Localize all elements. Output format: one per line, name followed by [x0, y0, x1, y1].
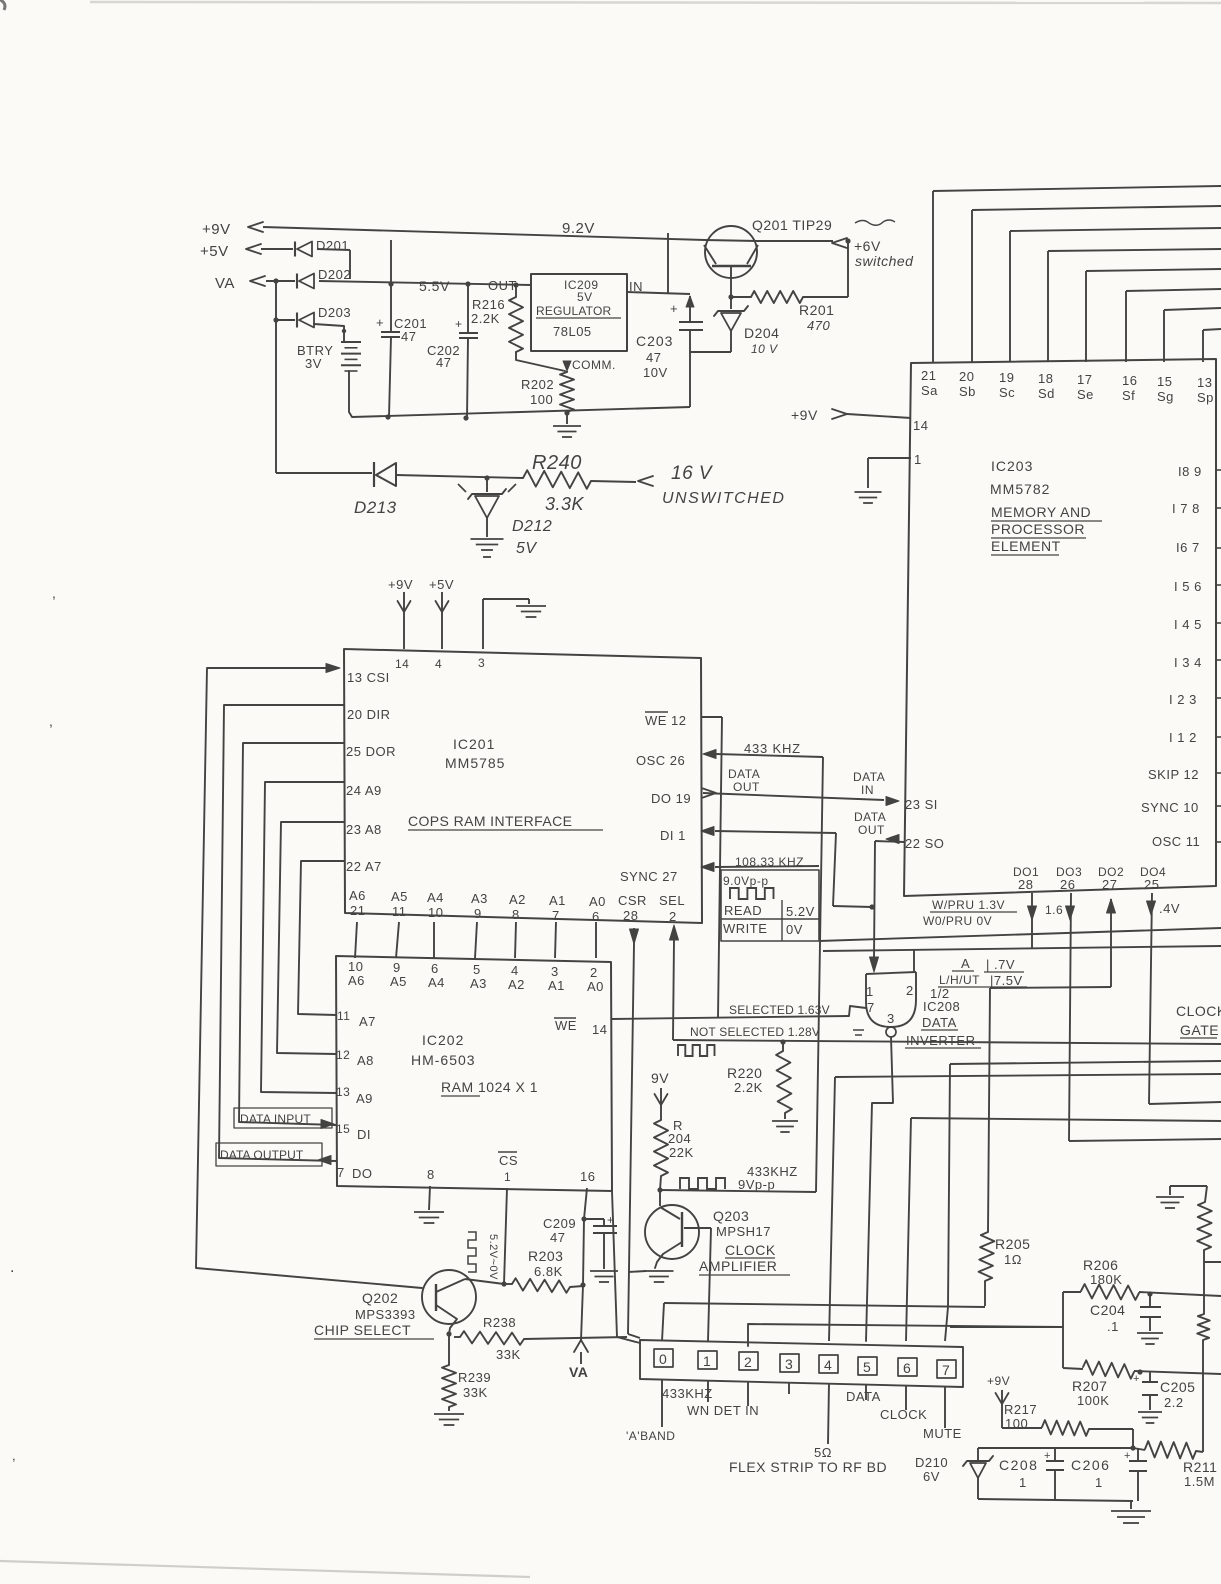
svg-text:CHIP SELECT: CHIP SELECT [314, 1322, 411, 1338]
svg-text:IC203: IC203 [991, 458, 1033, 474]
svg-text:+: + [455, 317, 463, 331]
svg-text:+: + [376, 315, 384, 330]
svg-text:470: 470 [807, 318, 830, 333]
svg-text:A5: A5 [390, 974, 407, 989]
svg-text:DATA: DATA [853, 770, 885, 784]
svg-text:| .7V: | .7V [986, 957, 1015, 972]
svg-text:3: 3 [478, 656, 485, 670]
svg-text:FLEX STRIP TO RF BD: FLEX STRIP TO RF BD [729, 1459, 887, 1475]
svg-text:3: 3 [551, 964, 559, 979]
svg-text:GATE: GATE [1180, 1022, 1219, 1038]
svg-text:+6V: +6V [854, 238, 881, 254]
svg-text:DATA: DATA [846, 1389, 881, 1404]
svg-text:OSC 11: OSC 11 [1152, 834, 1200, 849]
svg-text:C205: C205 [1160, 1379, 1195, 1395]
svg-text:+9V: +9V [791, 407, 818, 423]
svg-text:IC202: IC202 [422, 1032, 464, 1048]
svg-text:1: 1 [914, 452, 922, 467]
svg-text:SELECTED 1.63V: SELECTED 1.63V [729, 1003, 830, 1017]
svg-text:R239: R239 [458, 1370, 491, 1385]
svg-text:2.2K: 2.2K [471, 311, 500, 326]
svg-text:23 A8: 23 A8 [346, 822, 382, 837]
svg-text:20: 20 [959, 369, 974, 384]
svg-text:A5: A5 [391, 889, 408, 904]
svg-text:5V: 5V [516, 540, 537, 557]
svg-text:23 SI: 23 SI [905, 797, 938, 812]
svg-text:.1: .1 [1107, 1319, 1119, 1334]
svg-text:+9V: +9V [202, 221, 231, 238]
svg-text:DATA: DATA [854, 810, 886, 824]
svg-text:OUT: OUT [733, 780, 760, 794]
svg-text:R238: R238 [483, 1315, 516, 1330]
svg-text:+9V: +9V [388, 577, 413, 592]
svg-text:A7: A7 [359, 1014, 376, 1029]
svg-text:REGULATOR: REGULATOR [536, 304, 612, 318]
svg-text:Q203: Q203 [713, 1208, 749, 1224]
svg-text:0: 0 [659, 1351, 667, 1367]
svg-text:Q202: Q202 [362, 1290, 398, 1306]
svg-text:7: 7 [552, 908, 560, 923]
svg-text:1: 1 [1095, 1475, 1103, 1490]
svg-text:5.2V: 5.2V [786, 904, 815, 919]
svg-text:C203: C203 [636, 333, 673, 349]
svg-text:Sp: Sp [1197, 390, 1214, 405]
svg-text:DATA INPUT: DATA INPUT [240, 1112, 311, 1126]
svg-text:RAM 1024 X 1: RAM 1024 X 1 [441, 1079, 538, 1095]
svg-text:33K: 33K [496, 1347, 521, 1362]
svg-text:25 DOR: 25 DOR [346, 744, 396, 759]
svg-text:IC208: IC208 [923, 999, 960, 1014]
svg-text:2: 2 [906, 983, 914, 998]
svg-text:MUTE: MUTE [923, 1426, 962, 1441]
svg-text:2: 2 [669, 909, 677, 924]
svg-text:|7.5V: |7.5V [990, 973, 1023, 988]
svg-text:IN: IN [861, 783, 874, 797]
svg-text:+5V: +5V [200, 243, 229, 260]
svg-text:A3: A3 [470, 976, 487, 991]
svg-text:MM5785: MM5785 [445, 755, 505, 771]
svg-text:Sa: Sa [921, 383, 938, 398]
svg-text:R216: R216 [472, 297, 505, 312]
svg-text:OUT: OUT [858, 823, 885, 837]
svg-text:R240: R240 [532, 452, 582, 474]
svg-text:18: 18 [1038, 371, 1053, 386]
svg-text:7: 7 [337, 1165, 345, 1180]
svg-text:A0: A0 [589, 894, 606, 909]
svg-text:HM-6503: HM-6503 [411, 1052, 476, 1068]
svg-text:DATA: DATA [728, 767, 760, 781]
svg-text:3.3K: 3.3K [545, 494, 585, 514]
svg-text:1: 1 [703, 1353, 711, 1369]
svg-text:MEMORY AND: MEMORY AND [991, 504, 1091, 520]
svg-text:switched: switched [855, 253, 914, 269]
svg-text:D204: D204 [744, 325, 779, 341]
svg-text:Sd: Sd [1038, 386, 1055, 401]
svg-text:DO: DO [352, 1166, 373, 1181]
svg-text:OUT: OUT [488, 278, 517, 293]
svg-text:D213: D213 [354, 498, 397, 517]
svg-text:2: 2 [590, 965, 598, 980]
svg-text:13: 13 [1197, 375, 1212, 390]
svg-text:433 KHZ: 433 KHZ [744, 741, 801, 756]
svg-text:COPS RAM INTERFACE: COPS RAM INTERFACE [408, 813, 572, 829]
svg-text:22 A7: 22 A7 [346, 859, 382, 874]
svg-text:CLOCK: CLOCK [1176, 1003, 1221, 1019]
svg-text:A6: A6 [349, 888, 366, 903]
svg-text:12: 12 [336, 1048, 350, 1062]
svg-text:6V: 6V [923, 1469, 940, 1484]
svg-text:180K: 180K [1090, 1272, 1122, 1287]
svg-text:7: 7 [867, 1000, 875, 1015]
svg-text:2.2: 2.2 [1164, 1395, 1184, 1410]
svg-text:4: 4 [824, 1357, 832, 1373]
svg-text:ELEMENT: ELEMENT [991, 538, 1061, 554]
svg-text:1: 1 [1019, 1475, 1027, 1490]
svg-text:1: 1 [866, 984, 874, 999]
svg-text:6: 6 [431, 961, 439, 976]
svg-text:WE 12: WE 12 [645, 713, 687, 728]
svg-text:IC201: IC201 [453, 736, 495, 752]
svg-text:'A'BAND: 'A'BAND [626, 1429, 675, 1443]
svg-text:47: 47 [646, 350, 661, 365]
svg-text:15: 15 [336, 1122, 350, 1136]
svg-text:28: 28 [623, 908, 638, 923]
svg-text:D210: D210 [915, 1455, 948, 1470]
svg-text:I8 9: I8 9 [1178, 464, 1202, 479]
svg-text:47: 47 [550, 1230, 565, 1245]
svg-text:DATA OUTPUT: DATA OUTPUT [220, 1148, 304, 1162]
svg-text:R205: R205 [995, 1236, 1030, 1252]
svg-text:15: 15 [1157, 374, 1172, 389]
svg-text:9: 9 [393, 960, 401, 975]
svg-text:CS: CS [499, 1153, 518, 1168]
svg-text:A9: A9 [356, 1091, 373, 1106]
svg-text:,: , [52, 585, 56, 601]
svg-text:VA: VA [569, 1364, 588, 1380]
svg-text:10: 10 [428, 905, 443, 920]
svg-text:UNSWITCHED: UNSWITCHED [662, 490, 785, 507]
svg-text:READ: READ [724, 903, 762, 918]
svg-text:204: 204 [668, 1131, 691, 1146]
svg-text:5Ω: 5Ω [814, 1445, 832, 1460]
svg-text:PROCESSOR: PROCESSOR [991, 521, 1085, 537]
svg-text:Sb: Sb [959, 384, 976, 399]
svg-text:2: 2 [744, 1354, 752, 1370]
svg-text:100: 100 [1005, 1416, 1028, 1431]
svg-text:WN DET IN: WN DET IN [687, 1403, 759, 1418]
svg-text:OSC 26: OSC 26 [636, 753, 685, 768]
svg-text:A6: A6 [348, 973, 365, 988]
svg-text:5: 5 [863, 1359, 871, 1375]
svg-text:9Vp-p: 9Vp-p [738, 1177, 775, 1192]
svg-text:D202: D202 [318, 267, 351, 282]
svg-text:L/H/UT: L/H/UT [939, 973, 980, 987]
svg-text:24 A9: 24 A9 [346, 783, 382, 798]
svg-text:SEL: SEL [659, 893, 685, 908]
svg-text:A1: A1 [548, 978, 565, 993]
svg-text:A4: A4 [427, 890, 444, 905]
svg-text:6: 6 [592, 909, 600, 924]
svg-text:8: 8 [512, 907, 520, 922]
svg-text:17: 17 [1077, 372, 1092, 387]
svg-text:433KHZ: 433KHZ [662, 1386, 713, 1401]
svg-text:SYNC 10: SYNC 10 [1141, 800, 1199, 815]
svg-text:CLOCK: CLOCK [880, 1407, 927, 1422]
svg-text:A1: A1 [549, 893, 566, 908]
svg-text:20 DIR: 20 DIR [347, 707, 390, 722]
svg-text:5: 5 [473, 962, 481, 977]
svg-text:R207: R207 [1072, 1378, 1107, 1394]
svg-text:22K: 22K [669, 1145, 694, 1160]
svg-text:9.0Vp-p: 9.0Vp-p [723, 874, 769, 888]
svg-text:6.8K: 6.8K [534, 1264, 563, 1279]
svg-text:C208: C208 [999, 1457, 1038, 1473]
svg-text:NOT SELECTED 1.28V: NOT SELECTED 1.28V [690, 1025, 820, 1039]
svg-text:MPS3393: MPS3393 [355, 1307, 416, 1322]
svg-text:DI 1: DI 1 [660, 828, 686, 843]
svg-text:INVERTER: INVERTER [906, 1033, 976, 1048]
svg-text:47: 47 [401, 329, 416, 344]
svg-text:R206: R206 [1083, 1257, 1118, 1273]
svg-text:I 7 8: I 7 8 [1172, 501, 1200, 516]
svg-text:+: + [670, 301, 678, 316]
svg-text:10 V: 10 V [751, 342, 778, 356]
svg-text:R201: R201 [799, 302, 834, 318]
svg-text:9V: 9V [651, 1070, 669, 1086]
svg-text:R220: R220 [727, 1065, 762, 1081]
svg-text:.4V: .4V [1159, 901, 1180, 916]
svg-text:A4: A4 [428, 975, 445, 990]
svg-text:100K: 100K [1077, 1393, 1109, 1408]
svg-text:+5V: +5V [429, 577, 454, 592]
svg-text:C204: C204 [1090, 1302, 1125, 1318]
svg-text:22 SO: 22 SO [905, 836, 944, 851]
svg-text:C209: C209 [543, 1216, 576, 1231]
svg-text:D212: D212 [512, 518, 552, 535]
svg-text:C206: C206 [1071, 1457, 1110, 1473]
svg-text:SKIP 12: SKIP 12 [1148, 767, 1199, 782]
svg-text:I 2 3: I 2 3 [1169, 692, 1197, 707]
svg-text:13: 13 [336, 1085, 350, 1099]
svg-text:27: 27 [1102, 877, 1117, 892]
svg-text:5.2V~0V: 5.2V~0V [487, 1234, 499, 1280]
svg-text:,: , [12, 1448, 16, 1463]
svg-text:28: 28 [1018, 877, 1033, 892]
svg-text:CSR: CSR [618, 893, 647, 908]
svg-text:DATA: DATA [922, 1015, 957, 1030]
svg-text:3: 3 [887, 1011, 895, 1026]
svg-text:10: 10 [348, 959, 363, 974]
svg-text:4: 4 [435, 657, 442, 671]
svg-text:A8: A8 [357, 1053, 374, 1068]
svg-text:16: 16 [580, 1169, 595, 1184]
svg-text:108.33 KHZ: 108.33 KHZ [735, 855, 804, 869]
svg-text:Sc: Sc [999, 385, 1015, 400]
svg-text:Q201 TIP29: Q201 TIP29 [752, 217, 832, 233]
svg-text:8: 8 [427, 1167, 435, 1182]
svg-text:W0/PRU 0V: W0/PRU 0V [923, 914, 992, 928]
svg-text:,: , [49, 713, 53, 729]
svg-text:MPSH17: MPSH17 [716, 1224, 771, 1239]
svg-text:1.5M: 1.5M [1184, 1474, 1215, 1489]
svg-text:+: + [1133, 1373, 1140, 1385]
svg-text:25: 25 [1144, 877, 1159, 892]
svg-text:14: 14 [592, 1022, 607, 1037]
svg-text:R202: R202 [521, 377, 554, 392]
svg-text:0V: 0V [786, 922, 803, 937]
svg-text:3V: 3V [305, 356, 322, 371]
svg-text:7: 7 [942, 1362, 950, 1378]
svg-text:13 CSI: 13 CSI [347, 670, 390, 685]
svg-text:DO 19: DO 19 [651, 791, 691, 806]
svg-text:6: 6 [903, 1360, 911, 1376]
svg-text:I6 7: I6 7 [1176, 540, 1200, 555]
svg-text:+: + [607, 1213, 615, 1227]
svg-text:+9V: +9V [987, 1374, 1010, 1388]
svg-text:MM5782: MM5782 [990, 481, 1050, 497]
svg-text:A0: A0 [587, 979, 604, 994]
svg-text:21: 21 [350, 903, 365, 918]
svg-text:9: 9 [474, 906, 482, 921]
svg-text:4: 4 [511, 963, 519, 978]
svg-text:I 1 2: I 1 2 [1169, 730, 1197, 745]
svg-text:11: 11 [337, 1009, 350, 1023]
svg-text:5.5V: 5.5V [419, 278, 450, 294]
svg-text:DI: DI [357, 1127, 371, 1142]
svg-text:R211: R211 [1183, 1459, 1217, 1475]
svg-text:VA: VA [215, 275, 235, 292]
svg-text:A: A [961, 956, 970, 971]
svg-text:14: 14 [913, 418, 928, 433]
svg-text:A3: A3 [471, 891, 488, 906]
svg-text:26: 26 [1060, 877, 1075, 892]
svg-text:5V: 5V [577, 290, 593, 304]
svg-text:W/PRU 1.3V: W/PRU 1.3V [932, 898, 1005, 912]
svg-text:16: 16 [1122, 373, 1137, 388]
svg-text:2.2K: 2.2K [734, 1080, 763, 1095]
svg-text:11: 11 [392, 904, 407, 919]
svg-text:CLOCK: CLOCK [725, 1242, 776, 1258]
svg-text:SYNC 27: SYNC 27 [620, 869, 678, 884]
svg-text:14: 14 [395, 657, 409, 671]
svg-text:1Ω: 1Ω [1004, 1252, 1022, 1267]
svg-text:16 V: 16 V [671, 463, 714, 484]
svg-text:A2: A2 [509, 892, 526, 907]
svg-text:1: 1 [504, 1170, 511, 1184]
svg-text:I 3 4: I 3 4 [1174, 655, 1202, 670]
svg-text:47: 47 [436, 355, 451, 370]
svg-text:10V: 10V [643, 365, 668, 380]
svg-text:COMM.: COMM. [572, 358, 616, 372]
svg-text:Sf: Sf [1122, 388, 1135, 403]
svg-text:3: 3 [785, 1356, 793, 1372]
svg-text:WRITE: WRITE [723, 921, 767, 936]
svg-text:.: . [10, 1259, 15, 1276]
svg-text:WE: WE [555, 1018, 577, 1033]
svg-text:R203: R203 [528, 1248, 563, 1264]
svg-text:Se: Se [1077, 387, 1094, 402]
svg-text:78L05: 78L05 [553, 324, 592, 339]
svg-text:R217: R217 [1004, 1402, 1037, 1417]
svg-text:I 4 5: I 4 5 [1174, 617, 1202, 632]
svg-text:21: 21 [921, 368, 936, 383]
svg-text:1.6: 1.6 [1045, 903, 1063, 917]
svg-text:D203: D203 [318, 305, 351, 320]
svg-text:9.2V: 9.2V [562, 220, 595, 237]
svg-text:33K: 33K [463, 1385, 488, 1400]
svg-text:Sg: Sg [1157, 389, 1174, 404]
svg-text:AMPLIFIER: AMPLIFIER [699, 1258, 777, 1274]
svg-text:I 5 6: I 5 6 [1174, 579, 1202, 594]
svg-text:100: 100 [530, 392, 553, 407]
svg-text:19: 19 [999, 370, 1014, 385]
svg-text:A2: A2 [508, 977, 525, 992]
